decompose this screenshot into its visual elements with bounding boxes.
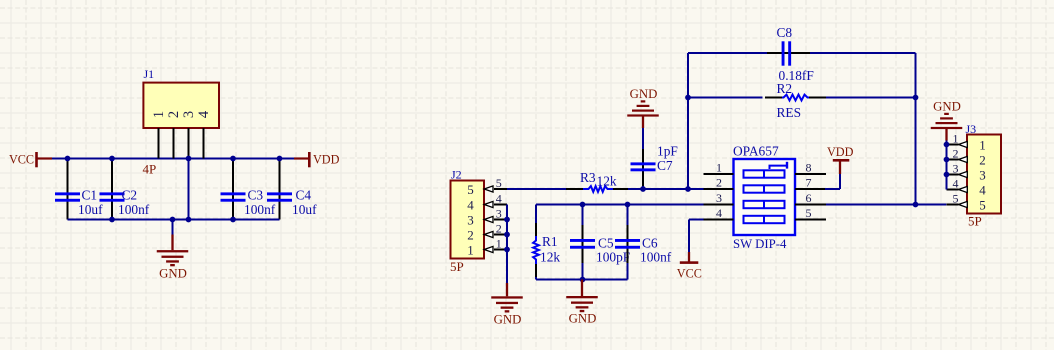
J2 pin 2 (467, 221, 507, 242)
svg-text:C8: C8 (777, 25, 793, 40)
svg-text:3: 3 (467, 212, 474, 227)
svg-text:100pF: 100pF (596, 250, 630, 265)
svg-text:R3: R3 (580, 170, 596, 185)
C5 labels (596, 236, 630, 265)
power port VCC (9, 152, 52, 167)
wire R3 to opamp pin2 (628, 188, 704, 190)
J2 pin 1 (467, 236, 507, 257)
wire feedback R2 row (688, 97, 916, 99)
svg-text:GND: GND (630, 87, 658, 101)
svg-text:1: 1 (979, 137, 986, 152)
U1 pin 4 (704, 206, 734, 220)
svg-text:R2: R2 (777, 81, 793, 96)
J2 pin 4 (467, 191, 507, 212)
svg-text:C4: C4 (296, 188, 312, 203)
R1 labels (540, 234, 560, 265)
svg-text:5P: 5P (450, 259, 464, 274)
svg-text:2: 2 (716, 176, 722, 190)
svg-text:100nf: 100nf (640, 250, 672, 265)
svg-text:5: 5 (979, 197, 986, 212)
svg-text:4: 4 (196, 110, 212, 118)
wire R1 branch down (535, 205, 537, 228)
junction dot R2 left (685, 95, 691, 101)
junction dot R2 right (913, 95, 919, 101)
svg-text:1pF: 1pF (657, 144, 678, 159)
op-amp U1 OPA657 (SW DIP-4 body) (733, 144, 795, 235)
wire opamp pin3 row (536, 204, 704, 206)
svg-text:4: 4 (467, 197, 474, 212)
C1 labels (78, 188, 103, 218)
svg-text:3: 3 (716, 191, 722, 205)
svg-text:6: 6 (806, 191, 812, 205)
junction dots J3 bus (944, 142, 950, 178)
U1 pin 2 (704, 176, 734, 190)
svg-text:100nf: 100nf (244, 202, 276, 217)
wire J2 ground bus (506, 205, 508, 284)
svg-text:GND: GND (569, 312, 597, 326)
U1 pin 3 (704, 191, 734, 205)
wire J2 pin5 to R3 (507, 188, 566, 190)
U1 pin 6 (795, 191, 826, 205)
junction dots bottom rail (109, 217, 236, 223)
svg-text:3: 3 (496, 206, 502, 220)
junction dot C7 (640, 186, 646, 192)
R3 labels (580, 170, 617, 189)
C3 labels (244, 188, 276, 218)
J2 pin 5 (467, 176, 507, 197)
svg-text:C5: C5 (598, 236, 614, 251)
svg-text:7: 7 (806, 176, 812, 190)
connector J2 (451, 168, 485, 259)
svg-text:10uf: 10uf (292, 202, 317, 217)
svg-text:1: 1 (496, 236, 502, 250)
svg-text:2: 2 (496, 221, 502, 235)
junction dot feedback left (685, 186, 691, 192)
svg-text:2: 2 (467, 227, 474, 242)
svg-text:5P: 5P (968, 214, 982, 229)
U1 pin 8 (795, 161, 826, 175)
svg-text:4: 4 (979, 182, 986, 197)
junction dots J2 bus (504, 217, 510, 253)
svg-text:C3: C3 (248, 188, 264, 203)
capacitor C3 (221, 159, 246, 220)
ground GND left (157, 220, 189, 281)
svg-text:12k: 12k (540, 250, 560, 265)
switch 1 lever (770, 162, 788, 169)
junction dot feedback right (913, 202, 919, 208)
svg-text:VDD: VDD (313, 152, 340, 166)
capacitor C7 (631, 128, 656, 189)
C2 labels (118, 188, 150, 218)
wire feedback left vertical (687, 53, 689, 189)
svg-text:GND: GND (933, 99, 961, 113)
ground GND above C7 (627, 87, 659, 128)
svg-text:GND: GND (494, 313, 522, 327)
svg-text:C7: C7 (657, 158, 673, 173)
svg-text:C6: C6 (642, 236, 658, 251)
junction dots top rail (65, 156, 283, 162)
junction dot bias rail (580, 277, 586, 283)
svg-text:2: 2 (979, 152, 986, 167)
svg-text:4: 4 (716, 206, 722, 220)
ground GND below C5 (566, 280, 598, 326)
svg-text:12k: 12k (597, 174, 617, 189)
J1 pin 2 (166, 111, 182, 159)
svg-text:1: 1 (467, 242, 474, 257)
ground GND above J3 (931, 99, 963, 140)
svg-text:RES: RES (777, 105, 802, 120)
ground GND below J2 (491, 283, 523, 327)
capacitor C5 (570, 205, 595, 280)
wire pin3 to ground rail (188, 159, 190, 220)
wire feedback right vertical (915, 53, 917, 205)
wire J3 ground bus (946, 141, 948, 190)
svg-text:C1: C1 (82, 188, 98, 203)
C8 labels (777, 25, 814, 83)
power port VDD right (825, 145, 854, 189)
C7 labels (657, 144, 678, 174)
svg-text:VCC: VCC (9, 152, 34, 166)
wire opamp pin6 to J3 (826, 204, 946, 206)
switch element 1 (744, 170, 785, 177)
connector J3 (966, 122, 1002, 214)
svg-text:8: 8 (806, 161, 812, 175)
svg-text:1: 1 (151, 111, 167, 118)
J1 pin 3 (181, 111, 197, 159)
J1 pin 1 (151, 111, 167, 159)
switch element 3 (744, 201, 785, 208)
J3 pin 1 (947, 131, 986, 152)
svg-text:4: 4 (496, 191, 502, 205)
J2 pin 3 (467, 206, 507, 227)
power port VDD (294, 152, 340, 167)
svg-text:3: 3 (953, 161, 959, 175)
svg-text:10uf: 10uf (78, 202, 103, 217)
svg-text:3: 3 (181, 111, 197, 118)
switch element 4 (744, 216, 785, 223)
U1 pin 7 (795, 176, 826, 190)
junction dots pin3 row (580, 202, 631, 208)
svg-text:R1: R1 (542, 234, 558, 249)
wire bias ground rail (536, 279, 628, 281)
svg-text:3: 3 (979, 167, 986, 182)
capacitor C4 (267, 159, 292, 220)
svg-text:C2: C2 (122, 188, 138, 203)
svg-text:4P: 4P (143, 162, 157, 177)
wire VCC rail (52, 158, 294, 160)
switch element 2 (744, 185, 785, 192)
svg-text:2: 2 (166, 111, 182, 118)
svg-text:VDD: VDD (827, 145, 854, 159)
svg-text:2: 2 (953, 146, 959, 160)
resistor R2 (765, 95, 826, 101)
capacitor C6 (615, 205, 640, 280)
connector J1 (143, 67, 219, 128)
svg-text:5: 5 (806, 206, 812, 220)
J3 pin 5 (947, 191, 986, 212)
J3 pin 2 (947, 146, 986, 167)
svg-text:1: 1 (953, 131, 959, 145)
svg-text:100nf: 100nf (118, 202, 150, 217)
wire feedback top (688, 52, 916, 54)
svg-text:J1: J1 (144, 67, 155, 81)
svg-text:4: 4 (953, 176, 959, 190)
svg-text:5: 5 (467, 182, 474, 197)
U1 pin 5 (795, 206, 826, 220)
J3 pin 4 (947, 176, 987, 197)
resistor R3 (566, 186, 630, 192)
svg-text:J2: J2 (451, 168, 462, 182)
U1 pin 1 (704, 161, 734, 175)
svg-text:SW DIP-4: SW DIP-4 (733, 237, 787, 251)
power port VCC right (677, 220, 704, 281)
svg-text:OPA657: OPA657 (733, 144, 779, 159)
capacitor C8 (767, 41, 810, 65)
capacitor C1 (55, 159, 80, 220)
capacitor C2 (100, 159, 125, 220)
resistor R1 (533, 223, 539, 277)
wire ground rail (68, 219, 280, 221)
svg-text:5: 5 (496, 176, 502, 190)
R2 labels (777, 81, 802, 120)
C4 labels (292, 188, 317, 218)
C6 labels (640, 236, 672, 265)
svg-text:GND: GND (159, 266, 187, 280)
J3 pin 3 (947, 161, 986, 182)
J1 pin 4 (196, 110, 212, 158)
svg-text:5: 5 (953, 191, 959, 205)
svg-text:VCC: VCC (677, 267, 702, 281)
svg-text:1: 1 (716, 161, 722, 175)
